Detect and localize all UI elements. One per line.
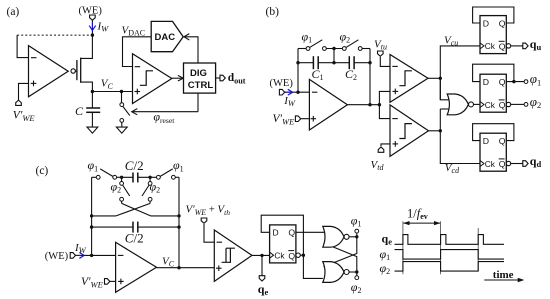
port phi1 [355,229,359,233]
ground below reset switch [116,127,127,133]
wire FF3 feedback loop [473,124,514,141]
current arrow I_W (blue) [76,253,84,259]
wire WE port to junction [91,20,93,35]
switch phi2 (parallel C2) [346,40,370,49]
flip-flop FF2 [480,74,511,112]
wire V_C output [157,267,215,269]
junction reset tap [120,90,123,93]
junction left rail cross row [90,214,93,217]
wire middle vertical [333,49,335,63]
wire DIG CTRL to DAC with arrow [184,34,198,63]
comparator CMP3 with hysteresis [214,230,252,281]
wire crossing diagonal from right [116,203,150,216]
wire phi_reset control with arrow [132,93,198,115]
wire V'_WE to + input [110,280,116,282]
junction V_cd [439,129,442,132]
wire cross row right segment [151,215,179,217]
wire crossing diagonal from left [122,203,151,216]
wire FF1 Qbar to q_u [511,45,523,47]
ground below capacitor C [87,127,98,133]
timing diagram frame markers [403,221,478,274]
port V'_WE + V_th [201,218,207,223]
wire right feedback rail [369,49,371,105]
junction right rail cap row [368,61,371,64]
junction FF2 loop [512,80,515,83]
comparator CMPU with hysteresis [390,55,428,103]
op-amp A2 [309,79,347,130]
port V'_WE [295,116,300,122]
svg-text:CTRL: CTRL [188,80,214,91]
wire left feedback rail [91,177,93,255]
junction node V_C [91,90,94,93]
wire V_cd net [429,109,481,164]
flip-flop FF4 [270,225,301,263]
port phi2 [355,276,359,280]
junction V_cu [439,77,442,80]
port q_u [523,43,528,49]
capacitor C2 [334,56,370,69]
port (WE) input [279,89,284,95]
junction cap right node [148,176,151,179]
wire splitter rail to comparator inputs [379,91,390,118]
NOR gate G3 (bottom) [323,262,349,283]
transistor M1 (PMOS) [75,35,93,91]
port q_e [259,276,265,281]
wire V_td to comparator + input [381,144,390,146]
wire V_C rail [92,91,132,93]
capacitor C/2 switched [133,173,156,183]
wire (WE) to op-amp - input [285,91,310,93]
wire NOR output to FF2 clock [474,103,481,105]
wire FF2 feedback loop [473,64,514,81]
wire op-amp A2 output [347,104,379,106]
port (WE) input [70,253,75,259]
wire dashed feedback sense line [17,34,92,36]
flip-flop FF3 [480,133,511,171]
port q_d [523,161,528,167]
comparator U1 with hysteresis [133,54,172,104]
wire cross couple phi1 to bottom NOR [324,237,357,267]
wire phi1 node to port [356,233,358,237]
svg-text:(WE): (WE) [45,251,69,262]
port V'_WE [105,279,110,285]
wire left feedback rail [297,49,299,93]
switch phi2 left (cross) [122,177,130,203]
switch phi_reset [122,92,130,128]
junction q_e tap [260,254,263,257]
wire FF2 Q to phi1 [506,81,524,83]
junction right rail cap row [177,225,180,228]
DAC U2 [151,21,183,51]
svg-text:time: time [493,269,514,281]
port V_td [378,147,384,152]
NOR gate G1 [447,94,473,115]
current arrow I_W (blue) [89,22,95,30]
junction - input / rail [296,91,299,94]
wire (WE) to op-amp - input [76,254,116,256]
svg-text:(a): (a) [7,6,20,18]
port V'_WE [16,100,22,105]
junction right rail cross row [177,214,180,217]
svg-text:(c): (c) [36,165,49,177]
switch phi2 right (cross) [142,177,150,203]
svg-text:C/2: C/2 [125,231,144,246]
wire FF3 Qbar to q_d [511,163,523,165]
switch phi1 (parallel C1) [298,40,343,49]
junction phi2 node [355,270,358,273]
port d_out [220,75,225,81]
wire q_e tap down [261,255,263,275]
junction middle cap row [332,61,335,64]
wire feedback left vertical [17,35,28,58]
waveform phi1 [395,250,505,260]
wire FF4 Q to top NOR input [296,231,324,233]
wire cross couple phi2 to top NOR [324,243,357,272]
junction left rail cap row [296,61,299,64]
wire threshold to comparator - input [204,224,214,242]
capacitor C [86,92,100,128]
switch phi1 left [92,169,133,177]
switch phi1 right [160,169,179,177]
current arrow I_W (blue) [285,89,293,95]
svg-text:V′WE + Vth: V′WE + Vth [186,204,231,217]
junction right rail on output [177,266,180,269]
svg-text:(b): (b) [266,6,280,18]
svg-text:C/2: C/2 [125,158,144,173]
wire G3 output to phi2 node [349,271,357,273]
wire Qbar to bottom NOR input [303,255,323,278]
wire FF1 feedback loop Q to D [473,7,514,23]
capacitor C/2 fixed [92,222,179,233]
port phi2 output [524,103,528,107]
junction phi1 node [355,235,358,238]
junction - input / left rail [90,254,93,257]
DIG CTRL block U3 [184,63,216,93]
wire d_out [216,77,221,79]
svg-text:DAC: DAC [155,32,176,43]
op-amp A1 [29,46,69,97]
wire FF4 Qbar stub [300,254,303,256]
wire V'_WE to + input [301,118,310,120]
wire comparator output to FF clock [252,254,270,256]
junction middle switch row [332,47,335,50]
junction left rail cap row [90,225,93,228]
capacitor C1 [298,56,334,69]
wire op-amp + input [19,83,29,100]
svg-text:DIG: DIG [190,68,207,79]
junction Qbar net [302,254,305,257]
op-amp A1 output inversion bubble [71,69,75,73]
dimension arrow 1/f_ev period [403,221,440,225]
junction right rail on output [368,103,371,106]
port (WE) input [90,15,96,20]
flip-flop FF1 [480,16,511,54]
wire FF4 feedback loop Qbar to D [261,215,303,255]
junction node I_W [91,33,94,36]
port V_tu [378,51,384,56]
wire phi2 node to port [356,272,358,276]
port phi1 output [524,80,528,84]
wire comparator output to DIG CTRL with arrow [172,75,183,81]
wire V_tu to comparator - input [380,57,390,66]
wire V_DAC net [123,37,152,67]
wire G2 output to phi1 node [349,236,357,238]
wire V_cu net [428,46,480,100]
time axis arrow [484,278,524,282]
op-amp A3 [116,242,157,292]
comparator CMPD with hysteresis [390,105,429,156]
NOR gate G2 (top) [323,226,349,247]
waveform q_e [395,235,505,245]
svg-text:(WE): (WE) [270,78,294,89]
svg-text:C: C [75,104,84,118]
junction cap left node [120,176,123,179]
junction splitter on output [378,103,381,106]
wire cross row left segment [92,215,116,217]
wire FF2 Qbar to phi2 [511,103,524,105]
waveform phi2 [395,262,505,272]
wire right feedback rail [178,177,180,267]
